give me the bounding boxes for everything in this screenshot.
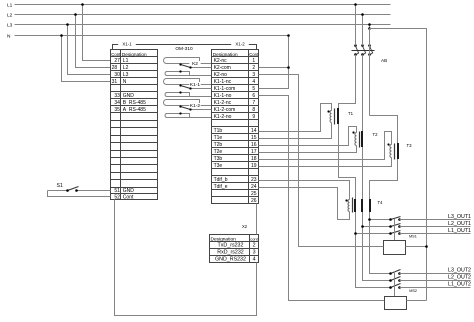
- svg-text:T1b: T1b: [214, 128, 223, 134]
- svg-text:T1e: T1e: [214, 135, 223, 141]
- svg-text:4: 4: [253, 257, 256, 263]
- svg-text:S1: S1: [57, 183, 63, 189]
- svg-text:N: N: [123, 79, 127, 85]
- svg-text:T2b: T2b: [214, 142, 223, 148]
- svg-text:8: 8: [252, 107, 255, 113]
- svg-text:K1-2-nc: K1-2-nc: [214, 100, 232, 106]
- svg-text:35: 35: [114, 107, 120, 113]
- svg-text:T3b: T3b: [214, 156, 223, 162]
- svg-text:3: 3: [253, 250, 256, 256]
- svg-text:T3e: T3e: [214, 163, 223, 169]
- svg-text:X1-1: X1-1: [122, 42, 132, 47]
- svg-text:GND_RS232: GND_RS232: [215, 257, 246, 263]
- svg-text:TxD_rs232: TxD_rs232: [218, 243, 244, 249]
- svg-text:K2-no: K2-no: [214, 72, 228, 78]
- svg-text:27: 27: [114, 58, 120, 64]
- svg-text:14: 14: [251, 128, 257, 134]
- svg-text:1: 1: [252, 58, 255, 64]
- svg-text:K1-2: K1-2: [190, 103, 200, 109]
- svg-text:L3: L3: [123, 72, 129, 78]
- svg-text:4: 4: [252, 79, 255, 85]
- svg-text:L2: L2: [123, 65, 129, 71]
- svg-text:52: 52: [114, 194, 120, 200]
- svg-text:2: 2: [253, 243, 256, 249]
- svg-text:Tdif_b: Tdif_b: [214, 177, 228, 183]
- svg-text:23: 23: [251, 177, 257, 183]
- svg-text:L1_OUT1: L1_OUT1: [448, 228, 471, 234]
- svg-text:34: 34: [114, 100, 120, 106]
- svg-text:51: 51: [114, 188, 120, 194]
- svg-text:19: 19: [251, 163, 257, 169]
- svg-text:L3_OUT1: L3_OUT1: [448, 214, 471, 220]
- svg-text:K1-1-com: K1-1-com: [214, 86, 236, 92]
- svg-text:9: 9: [252, 114, 255, 120]
- svg-text:MS1: MS1: [409, 235, 417, 239]
- svg-text:Cont: Cont: [123, 194, 134, 200]
- svg-text:33: 33: [114, 93, 120, 99]
- svg-text:Cont: Cont: [249, 52, 259, 57]
- svg-text:28: 28: [112, 65, 118, 71]
- svg-text:L3_OUT2: L3_OUT2: [448, 267, 471, 273]
- svg-text:Designation: Designation: [122, 52, 147, 57]
- svg-text:26: 26: [251, 198, 257, 204]
- svg-text:K1-1: K1-1: [190, 82, 200, 88]
- svg-text:7: 7: [252, 100, 255, 106]
- svg-text:K2-nc: K2-nc: [214, 58, 228, 64]
- svg-text:GND: GND: [123, 93, 135, 99]
- svg-text:L2: L2: [7, 12, 13, 18]
- svg-text:Tdif_e: Tdif_e: [214, 184, 228, 190]
- svg-text:L1: L1: [123, 58, 129, 64]
- svg-text:25: 25: [251, 191, 257, 197]
- svg-text:MS2: MS2: [409, 289, 417, 293]
- svg-text:Designation: Designation: [211, 236, 237, 242]
- svg-text:cont: cont: [250, 236, 258, 241]
- svg-text:OM-310: OM-310: [175, 46, 193, 52]
- svg-text:T2: T2: [373, 132, 379, 137]
- svg-text:B RS-485: B RS-485: [123, 100, 146, 106]
- svg-text:2: 2: [252, 65, 255, 71]
- svg-text:L3: L3: [7, 22, 13, 28]
- svg-text:L2_OUT2: L2_OUT2: [448, 275, 471, 281]
- svg-text:17: 17: [251, 149, 257, 155]
- svg-text:L2_OUT1: L2_OUT1: [448, 221, 471, 227]
- svg-text:16: 16: [251, 142, 257, 148]
- svg-text:K1-1-no: K1-1-no: [214, 93, 232, 99]
- svg-text:Designation: Designation: [213, 52, 238, 57]
- svg-text:6: 6: [252, 93, 255, 99]
- svg-text:K1-2-com: K1-2-com: [214, 107, 236, 113]
- svg-text:X2: X2: [242, 224, 248, 229]
- svg-text:X1-2: X1-2: [235, 42, 245, 47]
- svg-text:30: 30: [114, 72, 120, 78]
- svg-text:31: 31: [112, 79, 118, 85]
- svg-text:T3: T3: [407, 143, 413, 148]
- svg-text:N: N: [7, 33, 11, 39]
- svg-text:K1-2-no: K1-2-no: [214, 114, 232, 120]
- svg-text:K2: K2: [192, 61, 198, 67]
- svg-text:24: 24: [251, 184, 257, 190]
- svg-text:18: 18: [251, 156, 257, 162]
- svg-text:15: 15: [251, 135, 257, 141]
- svg-text:Cont: Cont: [111, 52, 121, 57]
- svg-text:T1: T1: [348, 111, 354, 116]
- svg-text:L1_OUT2: L1_OUT2: [448, 281, 471, 287]
- svg-text:5: 5: [252, 86, 255, 92]
- svg-text:T2e: T2e: [214, 149, 223, 155]
- svg-text:3: 3: [252, 72, 255, 78]
- svg-text:GND: GND: [123, 188, 135, 194]
- svg-text:K2-com: K2-com: [214, 65, 231, 71]
- svg-text:K1-1-nc: K1-1-nc: [214, 79, 232, 85]
- svg-text:A RS-485: A RS-485: [123, 107, 146, 113]
- svg-text:T4: T4: [378, 200, 384, 205]
- svg-text:AB: AB: [381, 58, 387, 63]
- svg-text:L1: L1: [7, 2, 13, 8]
- svg-text:RxD_rs232: RxD_rs232: [217, 250, 244, 256]
